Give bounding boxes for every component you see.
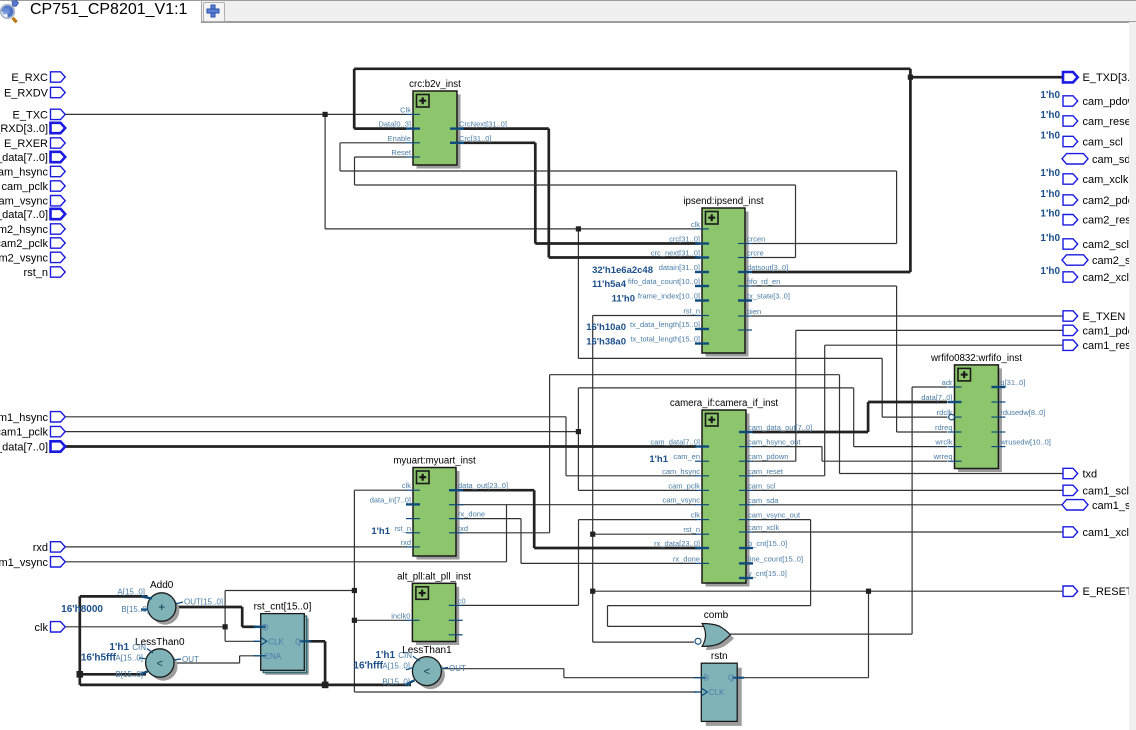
wire rx_done to camera_if <box>460 519 696 564</box>
tab bar <box>0 0 1136 21</box>
svg-text:16'hfff: 16'hfff <box>353 660 383 671</box>
output port cam_scl <box>1040 131 1122 149</box>
svg-text:crc_next[31..0]: crc_next[31..0] <box>651 249 700 258</box>
svg-text:tx_state[3..0]: tx_state[3..0] <box>747 292 790 301</box>
svg-text:camera_if:camera_if_inst: camera_if:camera_if_inst <box>670 398 779 409</box>
output port cam2_reset <box>1040 209 1136 227</box>
svg-text:A[15..0]: A[15..0] <box>115 654 143 663</box>
svg-text:cam_reset: cam_reset <box>1083 116 1134 128</box>
svg-text:wrreq: wrreq <box>933 452 953 461</box>
block crc:b2v_inst <box>378 79 506 169</box>
block camera_if:camera_if_inst <box>649 398 812 587</box>
svg-text:11'h5a4: 11'h5a4 <box>592 279 627 290</box>
svg-text:txd: txd <box>458 524 468 533</box>
svg-text:A[15..0]: A[15..0] <box>117 587 145 596</box>
svg-text:rst_n: rst_n <box>683 307 700 316</box>
svg-text:rst_n: rst_n <box>394 524 411 533</box>
svg-text:cam2_data[7..0]: cam2_data[7..0] <box>0 209 48 221</box>
input port E_RXER <box>4 138 65 150</box>
svg-text:fifo_data_count[10..0]: fifo_data_count[10..0] <box>628 277 700 286</box>
wire rst_cnt Q down <box>304 641 325 685</box>
wire clk to rst_cnt CLK <box>225 627 256 642</box>
svg-text:cam_en: cam_en <box>673 452 700 461</box>
block alt_pll:alt_pll_inst <box>391 571 471 645</box>
wire clk to myuart clk <box>354 489 407 491</box>
svg-text:cam2_pclk: cam2_pclk <box>0 238 48 250</box>
svg-text:datain[31..0]: datain[31..0] <box>659 263 700 272</box>
wire rst_n to E_RESET <box>593 590 1063 592</box>
adder Add0 <box>61 580 223 625</box>
svg-text:E_RESET: E_RESET <box>1083 586 1133 598</box>
wire cam_pdown to cam1_pdow <box>752 330 1063 461</box>
svg-text:cam_data[7..0]: cam_data[7..0] <box>650 438 700 447</box>
wire LessThan1 OUT to rstn D <box>441 669 696 678</box>
input port cam1_pclk <box>0 426 65 438</box>
svg-text:cam2_vsync: cam2_vsync <box>0 252 48 264</box>
svg-text:Reset: Reset <box>391 148 412 157</box>
svg-text:cam_hsync: cam_hsync <box>0 167 48 179</box>
svg-text:cam2_hsync: cam2_hsync <box>0 224 48 236</box>
wire E_TXC branch to rdclk <box>578 229 947 417</box>
wire rstn Q up <box>744 591 869 678</box>
svg-text:cam_vsync: cam_vsync <box>0 196 48 208</box>
new tab (+) button <box>203 2 225 22</box>
input port clk <box>35 622 66 634</box>
svg-text:comb: comb <box>704 610 729 621</box>
svg-text:OUT[15..0]: OUT[15..0] <box>184 598 223 607</box>
output port cam_pdown <box>1040 90 1136 108</box>
output port E_TXEN <box>1063 311 1125 323</box>
wire bus CrcNext to ipsend crc_next <box>461 129 700 258</box>
junction bus jB <box>77 671 84 678</box>
svg-text:D: D <box>703 674 709 683</box>
input port E_TXC <box>13 109 66 121</box>
block myuart:myuart_inst <box>370 456 508 560</box>
wire bus branch to E_TXD port <box>910 76 1063 79</box>
svg-text:CIN: CIN <box>132 643 146 652</box>
svg-text:cam_sda: cam_sda <box>748 496 779 505</box>
vertical scrollbar <box>1129 22 1136 730</box>
svg-text:crc:b2v_inst: crc:b2v_inst <box>409 79 461 90</box>
output port cam_reset <box>1040 110 1133 128</box>
junction bus E_TXD junction <box>908 75 913 80</box>
svg-text:rst_n: rst_n <box>683 525 700 534</box>
wire crcen to crc Enable <box>340 143 897 244</box>
svg-text:B[15..0]: B[15..0] <box>382 678 410 687</box>
svg-text:rst_n: rst_n <box>24 267 48 279</box>
tab bar top border <box>28 0 1136 1</box>
svg-text:ipsend:ipsend_inst: ipsend:ipsend_inst <box>683 196 764 207</box>
svg-text:1'h1: 1'h1 <box>109 642 129 653</box>
svg-text:cam_xclk: cam_xclk <box>1083 174 1129 186</box>
svg-text:11'h0: 11'h0 <box>612 294 635 305</box>
wire comb out to wrfifo adr <box>730 387 947 634</box>
wire E_TXC to crc Clk / ipsend clk / wrfifo rdclk <box>65 113 406 115</box>
svg-text:alt_pll:alt_pll_inst: alt_pll:alt_pll_inst <box>397 571 471 582</box>
gate comb <box>695 610 734 650</box>
svg-text:crcen: crcen <box>747 235 765 244</box>
svg-text:CIN: CIN <box>398 651 412 660</box>
wire rst_n vertical <box>593 316 694 643</box>
svg-text:y_cnt[15..0]: y_cnt[15..0] <box>748 569 787 578</box>
junction bus jQ <box>322 682 329 689</box>
svg-text:cam_xclk: cam_xclk <box>748 523 780 532</box>
svg-text:cam_pclk: cam_pclk <box>668 481 700 490</box>
svg-text:E_RXC: E_RXC <box>11 72 48 84</box>
svg-text:c0: c0 <box>458 596 466 605</box>
svg-text:clk: clk <box>402 481 411 490</box>
svg-text:E_TXC: E_TXC <box>13 109 49 121</box>
input port cam_hsync <box>0 166 65 178</box>
svg-text:cam1_vsync: cam1_vsync <box>0 557 48 569</box>
svg-text:datsout[3..0]: datsout[3..0] <box>747 263 788 272</box>
wire bus datsout to E_TXD and crc Data <box>354 69 910 272</box>
svg-text:rx_done: rx_done <box>673 554 700 563</box>
svg-text:B[15..0]: B[15..0] <box>115 670 143 679</box>
svg-text:1'h0: 1'h0 <box>1040 266 1060 277</box>
svg-text:frame_index[10..0]: frame_index[10..0] <box>638 292 700 301</box>
input port E_RXC <box>11 72 65 84</box>
svg-text:Add0: Add0 <box>150 580 174 591</box>
svg-text:A[15..0]: A[15..0] <box>382 661 410 670</box>
comparator LessThan0 <box>81 637 199 681</box>
output port cam1_pdown <box>1063 325 1136 337</box>
svg-text:cam1_xclk: cam1_xclk <box>1083 527 1135 539</box>
output port cam_xclk <box>1040 168 1128 186</box>
wire cam1_vsync to cam_vsync <box>65 505 696 562</box>
input port cam1_vsync <box>0 557 65 569</box>
svg-text:clk: clk <box>691 220 700 229</box>
input port cam1_hsync <box>0 412 65 424</box>
svg-text:adr: adr <box>942 378 953 387</box>
output port cam2_sda <box>1062 255 1136 267</box>
output port cam2_pdown <box>1040 189 1136 207</box>
svg-text:CLK: CLK <box>268 637 284 646</box>
svg-text:clk: clk <box>35 622 49 634</box>
svg-text:cam_reset: cam_reset <box>748 467 784 476</box>
svg-text:rst_cnt[15..0]: rst_cnt[15..0] <box>254 602 312 613</box>
svg-text:E_RXER: E_RXER <box>4 138 48 150</box>
svg-text:E_RXDV: E_RXDV <box>4 88 49 100</box>
svg-text:cam2_xclk: cam2_xclk <box>1083 272 1135 284</box>
svg-text:myuart:myuart_inst: myuart:myuart_inst <box>393 456 476 467</box>
wire E_TXC branch down <box>325 114 700 228</box>
svg-text:cam_vsync: cam_vsync <box>662 496 700 505</box>
wire clk main vertical <box>354 490 696 692</box>
svg-text:32'h1e6a2c48: 32'h1e6a2c48 <box>592 265 653 276</box>
output port E_TXD[3..0] <box>1063 72 1136 84</box>
output port cam1_scl <box>1063 485 1129 497</box>
svg-text:rdreq: rdreq <box>935 423 953 432</box>
block wrfifo0832:wrfifo_inst <box>921 353 1051 472</box>
input port cam2_pclk <box>0 238 65 250</box>
svg-text:cam_data_out[7..0]: cam_data_out[7..0] <box>748 423 812 432</box>
wire crcre to crc Reset <box>355 157 796 258</box>
svg-text:rstn: rstn <box>711 651 728 662</box>
svg-text:Enable: Enable <box>388 134 411 143</box>
svg-text:cam_pclk: cam_pclk <box>2 181 49 193</box>
svg-text:cam1_scl: cam1_scl <box>1083 485 1129 497</box>
wire c0 to camera_if clk <box>461 520 696 606</box>
input port rst_n <box>24 267 66 279</box>
svg-text:1'h0: 1'h0 <box>1040 110 1060 121</box>
svg-text:cam_scl: cam_scl <box>1083 137 1123 149</box>
wire cam1_hsync to cam_hsync <box>65 417 696 476</box>
svg-text:cam2_scl: cam2_scl <box>1083 239 1129 251</box>
junction rst_n j2 <box>590 589 595 594</box>
svg-text:line_count[15..0]: line_count[15..0] <box>748 554 803 563</box>
svg-text:OUT: OUT <box>449 664 466 673</box>
svg-text:q[31..0]: q[31..0] <box>1000 378 1025 387</box>
svg-text:fifo_rd_en: fifo_rd_en <box>747 277 780 286</box>
svg-text:1'h0: 1'h0 <box>1040 233 1060 244</box>
svg-text:ENA: ENA <box>265 652 282 661</box>
svg-text:rx_done: rx_done <box>458 510 485 519</box>
svg-text:1'h1: 1'h1 <box>649 454 668 465</box>
svg-text:Data[0..3]: Data[0..3] <box>378 120 411 129</box>
svg-text:cam_hsync_out: cam_hsync_out <box>748 438 801 447</box>
output port txd <box>1063 468 1097 480</box>
junction clk j1 <box>223 624 228 629</box>
wire rst_cnt bus to LessThan0 B <box>80 673 146 676</box>
junction cam1_pclk j <box>576 429 581 434</box>
svg-text:wrfifo0832:wrfifo_inst: wrfifo0832:wrfifo_inst <box>930 353 1022 364</box>
svg-text:E_TXEN: E_TXEN <box>1083 311 1126 323</box>
svg-text:data_in[7..0]: data_in[7..0] <box>370 495 411 504</box>
junction E_TXC at ipsend clk row <box>576 226 581 231</box>
svg-text:rx_data[23..0]: rx_data[23..0] <box>654 539 700 548</box>
active tab CP751_CP8201_V1:1 <box>0 0 202 21</box>
junction clk j3 <box>352 618 357 623</box>
svg-text:1'h0: 1'h0 <box>1040 168 1060 179</box>
svg-text:E_TXD[3..0]: E_TXD[3..0] <box>1083 72 1136 84</box>
comparator LessThan1 <box>353 645 466 689</box>
wire rst_n to camera_if <box>593 533 696 535</box>
wire LessThan0 OUT to ENA <box>174 656 256 663</box>
input port E_RXDV <box>4 87 65 99</box>
junction clk j2 <box>352 588 357 593</box>
input port cam_data[7..0] <box>0 152 65 164</box>
svg-text:cam_data[7..0]: cam_data[7..0] <box>0 152 48 164</box>
wire clk from port <box>65 626 225 628</box>
svg-text:cam_vsync_out: cam_vsync_out <box>748 511 801 520</box>
svg-text:cam_pdown: cam_pdown <box>1083 96 1136 108</box>
svg-text:cam1_hsync: cam1_hsync <box>0 412 48 424</box>
svg-text:clk: clk <box>691 511 700 520</box>
svg-text:bien: bien <box>747 307 761 316</box>
wrfifo rdclk bubble <box>949 414 955 420</box>
wire cam1_pclk line <box>65 431 578 433</box>
svg-text:E_RXD[3..0]: E_RXD[3..0] <box>0 123 48 135</box>
output port E_RESET <box>1063 586 1133 598</box>
wire cam_reset to cam1_rese <box>752 345 1063 476</box>
svg-text:b_cnt[15..0]: b_cnt[15..0] <box>748 539 787 548</box>
svg-text:16'h5fff: 16'h5fff <box>81 653 117 664</box>
svg-text:tx_data_length[15..0]: tx_data_length[15..0] <box>630 320 700 329</box>
svg-text:Q: Q <box>295 637 301 646</box>
svg-text:data_out[23..0]: data_out[23..0] <box>458 481 508 490</box>
block ipsend:ipsend_inst <box>586 196 790 357</box>
input port cam_vsync <box>0 196 65 208</box>
RTL viewer tab icon <box>0 0 28 24</box>
output port cam1_sda <box>1062 500 1136 512</box>
junction E_TXC at crc Clk row <box>323 112 328 117</box>
svg-text:Q: Q <box>728 674 734 683</box>
svg-text:cam1_reset: cam1_reset <box>1083 340 1136 352</box>
wire cam_scl to cam1_scl <box>752 489 1063 491</box>
input port E_RXD[3..0] <box>0 123 65 135</box>
wire data_out bus to rx_data <box>460 490 700 548</box>
wire rst_cnt bus feedback <box>80 596 411 685</box>
output port cam1_reset <box>1063 340 1136 352</box>
wire clk up branch <box>225 591 354 627</box>
svg-text:1'h1: 1'h1 <box>371 526 390 537</box>
svg-text:txd: txd <box>1083 469 1098 481</box>
svg-text:cam1_pdown: cam1_pdown <box>1083 325 1136 337</box>
register rstn <box>694 651 744 726</box>
output port cam2_xclk <box>1040 266 1135 284</box>
wire cam_data_out bus to wrfifo <box>752 402 947 432</box>
output port cam2_scl <box>1040 233 1129 251</box>
svg-text:data[7..0]: data[7..0] <box>921 393 952 402</box>
svg-text:16'h8000: 16'h8000 <box>61 604 103 615</box>
svg-text:+: + <box>158 600 165 614</box>
wire myuart nc out stub wire <box>460 504 507 506</box>
svg-text:inclk0: inclk0 <box>391 611 410 620</box>
wire cam1_pclk to cam_pclk <box>578 432 696 491</box>
svg-text:rxd: rxd <box>401 538 411 547</box>
wire bien to E_TXEN <box>752 315 1063 317</box>
svg-text:cam2_pdown: cam2_pdown <box>1083 195 1136 207</box>
svg-text:1'h0: 1'h0 <box>1040 209 1060 220</box>
svg-text:D: D <box>263 623 269 632</box>
svg-text:1'h0: 1'h0 <box>1040 131 1060 142</box>
wire cam_hsync_out to wrreq <box>752 447 947 462</box>
wire cam_xclk to cam1_xclk <box>752 531 1063 533</box>
svg-text:1'h1: 1'h1 <box>375 650 395 661</box>
input port cam_pclk <box>2 181 66 193</box>
junction rst_n j1 <box>590 532 595 537</box>
input port cam1_data[7..0] <box>0 441 65 453</box>
svg-text:cam1_data[7..0]: cam1_data[7..0] <box>0 442 48 454</box>
wire cam_vsync_out to comb <box>608 520 811 627</box>
svg-text:cam_hsync: cam_hsync <box>662 467 700 476</box>
svg-text:rxd: rxd <box>33 542 48 554</box>
svg-text:cam2_reset: cam2_reset <box>1083 215 1136 227</box>
svg-text:B[15..0]: B[15..0] <box>121 605 149 614</box>
wire bus Crc to ipsend crc <box>461 143 700 244</box>
svg-text:crc[31..0]: crc[31..0] <box>669 235 700 244</box>
svg-text:cam_scl: cam_scl <box>748 481 776 490</box>
svg-text:16'h10a0: 16'h10a0 <box>586 322 626 333</box>
svg-text:cam_pdown: cam_pdown <box>748 452 788 461</box>
svg-text:CrcNext[31..0]: CrcNext[31..0] <box>459 120 507 129</box>
svg-text:1'h0: 1'h0 <box>1040 90 1060 101</box>
wire rst_n to ipsend <box>593 315 700 317</box>
svg-text:CLK: CLK <box>709 688 725 697</box>
wire fifo_rd_en to wrfifo rdreq <box>752 286 947 432</box>
svg-text:crcre: crcre <box>747 249 764 258</box>
svg-text:OUT: OUT <box>182 655 199 664</box>
wire txd net <box>460 375 1063 533</box>
wire Add0 OUT bus to D <box>176 607 256 627</box>
output port cam1_xclk <box>1063 527 1135 539</box>
wire cam1_pclk to wrfifo wrclk <box>578 388 947 447</box>
register rst_cnt <box>254 602 312 675</box>
input port cam2_data[7..0] <box>0 209 65 221</box>
junction rst_n j3 <box>866 589 871 594</box>
svg-text:Crc[31..0]: Crc[31..0] <box>459 134 492 143</box>
input port cam2_hsync <box>0 224 65 236</box>
svg-text:<: < <box>424 666 430 678</box>
wire cam1_data bus <box>65 445 696 448</box>
svg-text:16'h38a0: 16'h38a0 <box>586 337 626 348</box>
svg-text:Clk: Clk <box>400 105 411 114</box>
svg-text:cam1_pclk: cam1_pclk <box>0 427 48 439</box>
wire cam_sda to cam1_sda <box>752 504 1062 506</box>
wire clk to inclk0 <box>354 619 406 621</box>
svg-text:1'h0: 1'h0 <box>1040 189 1060 200</box>
input port cam2_vsync <box>0 252 65 264</box>
svg-text:wrusedw[10..0]: wrusedw[10..0] <box>999 438 1050 447</box>
svg-text:tx_total_length[15..0]: tx_total_length[15..0] <box>630 335 700 344</box>
svg-text:wrclk: wrclk <box>934 438 952 447</box>
svg-text:rdusedw[8..0]: rdusedw[8..0] <box>1000 408 1045 417</box>
input port rxd <box>33 542 65 554</box>
svg-text:<: < <box>157 658 163 670</box>
output port cam_sda <box>1062 154 1136 166</box>
wire rxd to myuart <box>65 546 407 548</box>
